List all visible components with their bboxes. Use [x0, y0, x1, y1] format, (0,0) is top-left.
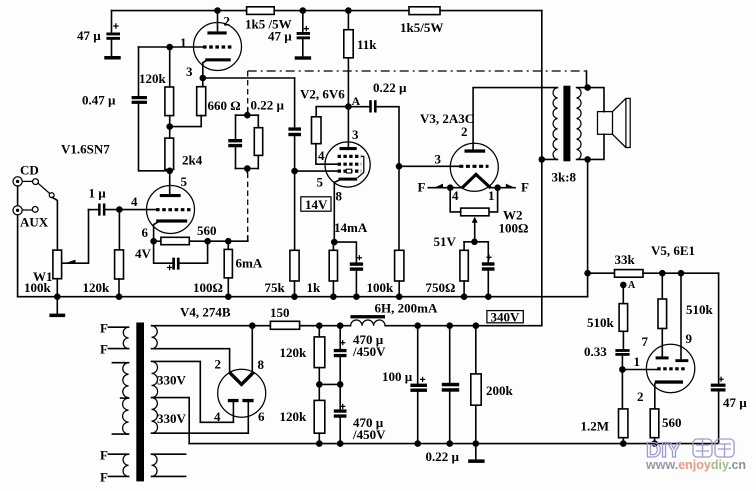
- wire V5 plate lead: [680, 273, 682, 359]
- junction grid/120k grid resistor: [116, 206, 123, 213]
- V5 cathode lead pin 2: [654, 384, 656, 409]
- svg-text:120k: 120k: [83, 280, 111, 295]
- svg-text:150: 150: [270, 305, 290, 320]
- V1b cathode lead pin 6: [154, 223, 157, 242]
- svg-text:47 µ: 47 µ: [268, 28, 292, 43]
- junction 100ohm ground: [225, 293, 232, 300]
- potentiometer W1 100k body: [53, 250, 62, 279]
- NFB bottom node: [244, 165, 251, 172]
- mains primary winding left: [112, 363, 128, 434]
- svg-text:0.22 µ: 0.22 µ: [426, 449, 460, 464]
- capacitor 47u second filter (polarized): [297, 11, 310, 57]
- dashed NFB drop wire: [247, 71, 249, 109]
- ground symbol below W1: [49, 297, 65, 317]
- svg-text:F: F: [100, 448, 108, 463]
- svg-text:www.enjoydiy.cn: www.enjoydiy.cn: [645, 458, 746, 472]
- V3 plate bar: [465, 149, 486, 152]
- svg-text:330V: 330V: [157, 411, 187, 426]
- wire to V3 grid: [399, 165, 459, 167]
- junction rail 47u second: [300, 7, 307, 14]
- V1b grid (dashed): [156, 208, 191, 211]
- junction midpoint 120k: [316, 381, 323, 388]
- wire NFB corner to OPT secondary: [586, 71, 588, 88]
- W1 wiper arrow: [63, 260, 76, 264]
- wire OPT primary bottom to B+ riser: [542, 158, 558, 160]
- junction secondary bottom: [584, 156, 591, 163]
- wire grid node down to 75k: [294, 171, 296, 250]
- wire switch to volume pot W1: [52, 197, 57, 250]
- svg-text:6mA: 6mA: [236, 255, 263, 270]
- junction 120k ground: [116, 293, 123, 300]
- junction secondary top: [584, 84, 591, 91]
- junction 560/bypass: [204, 238, 211, 245]
- speaker cone: [613, 98, 631, 147]
- resistor 75k grid leak V2: [290, 250, 299, 296]
- svg-text:V1.6SN7: V1.6SN7: [61, 142, 110, 157]
- svg-text:3: 3: [435, 152, 442, 167]
- svg-text:100k: 100k: [24, 280, 52, 295]
- V2 cathode lead pin 8: [334, 180, 338, 242]
- svg-text:F: F: [100, 470, 108, 485]
- dashed NFB wire down to V1b cathode: [246, 169, 248, 242]
- V2 beam plate to cathode bracket: [357, 156, 363, 177]
- capacitor cathode bypass V1b (polarized): [154, 241, 208, 270]
- V2 grid marker open square: [346, 169, 351, 173]
- svg-text:1.2M: 1.2M: [581, 418, 610, 433]
- junction rectifier output: [249, 322, 256, 329]
- resistor 33k: [588, 270, 719, 278]
- resistor 120k grid V1b: [115, 210, 124, 297]
- HV secondary winding right: [152, 361, 249, 443]
- svg-text:560: 560: [197, 223, 217, 238]
- watermark DIY logo: [646, 439, 734, 462]
- capacitor V3 cathode bypass (polarized): [482, 242, 495, 297]
- svg-text:6H, 200mA: 6H, 200mA: [375, 300, 438, 315]
- svg-text:0.22 µ: 0.22 µ: [251, 97, 285, 112]
- heater winding top left: [109, 327, 129, 348]
- output transformer core: [563, 86, 570, 162]
- junction 120k filter 1: [316, 322, 323, 329]
- junction primary bottom B+: [539, 156, 546, 163]
- V1b plate lead: [169, 171, 171, 194]
- svg-text:4: 4: [452, 188, 459, 203]
- svg-text:560: 560: [662, 415, 682, 430]
- tube V3 2A3 envelope: [450, 143, 498, 191]
- resistor 150: [252, 321, 350, 329]
- wire V1a cathode signal to V2 grid network: [294, 78, 296, 127]
- junction 1k ground: [330, 293, 337, 300]
- tube V2 6V6 envelope: [325, 142, 370, 187]
- wire W1 wiper to 1u cap: [63, 210, 89, 264]
- svg-text:33k: 33k: [615, 252, 636, 267]
- junction bypass ground: [353, 293, 360, 300]
- output transformer secondary winding: [577, 88, 581, 160]
- V5 grid (dashed): [657, 367, 686, 370]
- svg-text:11k: 11k: [357, 37, 377, 52]
- V1a grid (dashed): [203, 45, 233, 48]
- V1a cathode bar: [205, 58, 230, 61]
- NFB parallel RC frame top: [236, 114, 259, 116]
- junction 560/6mA: [225, 238, 232, 245]
- junction 470u filter 1: [337, 322, 344, 329]
- svg-text:8: 8: [258, 357, 265, 372]
- wire PSU ground bus: [189, 443, 718, 445]
- junction 750 ground: [461, 293, 468, 300]
- V4 plate bar left: [228, 399, 239, 402]
- svg-text:2: 2: [215, 356, 222, 371]
- node A junction (V2 plate): [345, 103, 352, 110]
- svg-text:9: 9: [686, 331, 693, 346]
- junction 1.2M bottom: [620, 440, 627, 447]
- node A tap dot: [620, 282, 627, 289]
- svg-text:120k: 120k: [139, 71, 167, 86]
- resistor 120k (V1a): [165, 47, 174, 127]
- svg-text:2k4: 2k4: [182, 152, 203, 167]
- svg-text:2: 2: [461, 124, 468, 139]
- rectifier 5V winding right top: [152, 326, 253, 373]
- capacitor 470u/450V second: [334, 384, 347, 443]
- W2 wiper arrow: [472, 217, 478, 242]
- svg-text:100Ω: 100Ω: [499, 220, 529, 235]
- svg-text:1 µ: 1 µ: [89, 185, 107, 200]
- svg-text:750Ω: 750Ω: [426, 280, 456, 295]
- resistor 100k grid leak V3: [395, 166, 404, 296]
- resistor 11k: [344, 11, 353, 107]
- AUX input jack: [13, 206, 38, 215]
- resistor 510k from node A: [619, 285, 628, 349]
- tube V1a 6SN7 upper triode envelope: [194, 23, 242, 71]
- svg-text:2: 2: [224, 14, 231, 29]
- resistor 120k filter 2: [314, 384, 325, 443]
- svg-text:F: F: [100, 342, 108, 357]
- svg-text:47 µ: 47 µ: [723, 395, 747, 410]
- svg-text:F: F: [100, 320, 108, 335]
- tube V1b 6SN7 lower triode envelope: [147, 186, 195, 234]
- svg-text:AUX: AUX: [20, 214, 49, 229]
- svg-text:0.22 µ: 0.22 µ: [373, 80, 407, 95]
- svg-text:3: 3: [352, 127, 359, 142]
- junction bypass V3 ground: [485, 293, 492, 300]
- resistor 100 ohm cathode (6mA): [224, 241, 232, 297]
- svg-text:660 Ω: 660 Ω: [208, 98, 241, 113]
- svg-text:120k: 120k: [280, 345, 308, 360]
- junction ground bus to OPT secondary riser: [584, 270, 591, 277]
- junction rail 11k: [345, 7, 352, 14]
- junction 120k2 bottom: [316, 440, 323, 447]
- junction V5 grid node: [619, 366, 626, 373]
- resistor 660 ohm: [170, 78, 206, 127]
- svg-text:47 µ: 47 µ: [77, 28, 101, 43]
- resistor 2k4: [165, 127, 174, 171]
- resistor 750 ohm cathode V3: [460, 242, 468, 297]
- resistor 1k cathode V2: [329, 242, 337, 297]
- junction 560 bottom: [651, 440, 658, 447]
- svg-text:100 µ: 100 µ: [382, 369, 413, 384]
- svg-text:14V: 14V: [305, 197, 328, 212]
- V3 filament: [462, 174, 491, 188]
- wire secondary bottom down to ground bus corner: [587, 159, 589, 296]
- svg-text:2: 2: [637, 389, 644, 404]
- junction 510k screen: [659, 270, 666, 277]
- svg-text:100k: 100k: [367, 280, 395, 295]
- resistor 120k filter 1: [314, 326, 325, 385]
- ground symbol PSU: [468, 444, 484, 463]
- junction plate V1b node: [166, 168, 173, 175]
- junction W2 wiper node: [471, 239, 478, 246]
- capacitor 47u cathode V5 (polarized): [711, 273, 726, 443]
- hum pot W2 100 ohm: [450, 188, 497, 216]
- junction 100u bottom: [414, 440, 421, 447]
- capacitor 0.22u coupling to V2: [288, 127, 301, 171]
- svg-text:1k: 1k: [307, 280, 322, 295]
- svg-text:330V: 330V: [157, 372, 187, 387]
- junction 100k ground: [396, 293, 403, 300]
- svg-text:0.47 µ: 0.47 µ: [82, 92, 116, 107]
- power transformer core: [136, 323, 144, 482]
- svg-text:510k: 510k: [686, 302, 714, 317]
- svg-text:75k: 75k: [265, 280, 286, 295]
- svg-text:V4, 274B: V4, 274B: [180, 305, 231, 320]
- svg-text:3: 3: [186, 64, 193, 79]
- capacitor 1u coupling: [89, 204, 157, 216]
- svg-text:/450V: /450V: [352, 427, 386, 442]
- svg-text:F: F: [418, 180, 426, 195]
- V1b cathode bar: [156, 219, 187, 222]
- tube V4 274B envelope: [218, 369, 266, 417]
- resistor 560 cathode V1b: [154, 237, 248, 244]
- junction 200k top: [473, 322, 480, 329]
- ground symbol for second 47u: [295, 56, 311, 59]
- capacitor 470u/450V first: [334, 326, 347, 385]
- capacitor 0.33: [615, 349, 629, 369]
- svg-text:4: 4: [318, 148, 325, 163]
- dash-dot NFB line from other channel: [248, 70, 587, 72]
- wire main ground bus: [18, 296, 588, 298]
- V2 plate lead: [347, 107, 349, 147]
- svg-text:340V: 340V: [491, 309, 521, 324]
- resistor 510k screen V5: [658, 273, 667, 356]
- capacitor 0.47u: [132, 47, 170, 171]
- svg-text:7: 7: [642, 334, 649, 349]
- svg-text:/450V: /450V: [352, 344, 386, 359]
- wire wiper node frame: [464, 241, 488, 243]
- V1a plate lead: [217, 11, 219, 32]
- svg-text:14mA: 14mA: [334, 220, 368, 235]
- svg-text:1: 1: [488, 188, 495, 203]
- junction on rail pin2 V1: [214, 7, 221, 14]
- tube V5 6E1 envelope: [646, 344, 694, 392]
- resistor 1k5/5W second: [409, 7, 440, 15]
- svg-text:F: F: [521, 180, 529, 195]
- resistor 560 cathode V5: [650, 409, 659, 444]
- junction V2 grid node: [291, 168, 298, 175]
- resistor 1k5/5W first: [247, 7, 275, 15]
- V4 plate bar right: [242, 399, 253, 402]
- junction 75k ground: [291, 293, 298, 300]
- junction V2 cathode network: [331, 239, 338, 246]
- capacitor 0.22u PSU: [442, 326, 459, 444]
- wire B+ riser right side down to PSU rail: [541, 11, 543, 326]
- junction filament left: [447, 184, 454, 191]
- NFB network top node: [244, 109, 251, 119]
- wire B+ top rail: [112, 10, 542, 12]
- boxed label 14V: [301, 197, 331, 212]
- junction 0.22u top: [446, 322, 453, 329]
- svg-text:5: 5: [317, 174, 324, 189]
- output transformer primary winding: [553, 88, 557, 160]
- junction 470u2 bottom: [337, 440, 344, 447]
- wire secondary bottom to speaker return: [577, 134, 604, 159]
- V1b plate bar: [160, 194, 181, 197]
- V2 plate bar: [340, 147, 357, 150]
- svg-text:8: 8: [336, 189, 343, 204]
- CD input jack: [13, 177, 38, 186]
- capacitor 0.22u coupling to V3: [348, 100, 399, 166]
- junction plate feed V5: [678, 270, 685, 277]
- resistor 200k bleeder: [471, 326, 481, 444]
- junction 200k bottom: [473, 440, 480, 447]
- svg-text:4: 4: [214, 409, 221, 424]
- svg-text:CD: CD: [20, 162, 39, 177]
- V1a cathode lead pin 3: [203, 61, 206, 78]
- capacitor 100u (polarized): [410, 326, 427, 444]
- choke 6H 200mA: [350, 315, 541, 326]
- V1a plate bar: [207, 31, 226, 34]
- junction W1 ground: [54, 293, 61, 300]
- ground symbol for 47u filter: [104, 56, 120, 60]
- svg-text:6: 6: [142, 225, 149, 240]
- svg-text:A: A: [628, 280, 636, 291]
- wire secondary top to speaker: [577, 88, 604, 112]
- junction grid/120k: [166, 44, 173, 51]
- V2 cathode bar: [339, 178, 358, 181]
- svg-text:100Ω: 100Ω: [193, 280, 223, 295]
- capacitor 0.22u NFB: [228, 115, 242, 168]
- wire to V2 grid: [295, 170, 338, 172]
- wire jack sleeves to ground bus: [17, 186, 19, 297]
- heater winding bottom right: [152, 454, 186, 476]
- wire filter midpoint: [319, 383, 340, 385]
- heater winding bottom left: [109, 454, 129, 476]
- svg-text:51V: 51V: [434, 234, 457, 249]
- svg-text:1: 1: [634, 354, 641, 369]
- svg-text:120k: 120k: [280, 409, 308, 424]
- junction V1b cathode: [150, 238, 157, 245]
- svg-text:4V: 4V: [135, 246, 152, 261]
- speaker driver box: [598, 112, 613, 135]
- V2 screen grid row (dashed): [338, 163, 362, 166]
- junction 100u top: [414, 322, 421, 329]
- filament wire right with arrow: [491, 184, 515, 188]
- V2 beam plate row (dashed): [338, 155, 362, 158]
- capacitor V2 cathode bypass (polarized): [334, 242, 363, 297]
- V3 plate lead to OPT: [473, 88, 557, 150]
- junction midpoint 470u: [337, 381, 344, 388]
- selector switch lever: [38, 183, 54, 197]
- svg-text:6: 6: [258, 409, 265, 424]
- svg-text:200k: 200k: [486, 383, 514, 398]
- boxed label 340V: [487, 309, 523, 324]
- filament wire left with arrow: [428, 184, 462, 188]
- V4 filament: [230, 372, 254, 384]
- junction filament right: [494, 184, 501, 191]
- svg-text:3k:8: 3k:8: [552, 169, 577, 184]
- svg-text:0.33: 0.33: [584, 344, 607, 359]
- screen resistor V2: [312, 107, 349, 165]
- W1 bottom lead: [56, 279, 58, 297]
- V5 target bar left: [656, 356, 669, 359]
- junction V3 grid node: [396, 163, 403, 170]
- svg-text:V2, 6V6: V2, 6V6: [300, 87, 345, 102]
- NFB frame bottom: [236, 168, 259, 170]
- V4 filament lead pin 8 to output node: [251, 326, 253, 373]
- V3 grid (dashed): [459, 165, 488, 168]
- svg-text:1k5/5W: 1k5/5W: [400, 20, 443, 35]
- svg-text:4: 4: [131, 194, 138, 209]
- wire V5 grid: [622, 369, 657, 371]
- V2 control grid row (dashed): [338, 170, 362, 173]
- resistor NFB: [254, 115, 262, 168]
- V5 cathode bar: [655, 380, 683, 383]
- svg-text:V5, 6E1: V5, 6E1: [651, 243, 695, 258]
- svg-text:5: 5: [181, 174, 188, 189]
- resistor 1.2M: [619, 370, 628, 444]
- junction cathode node: [200, 75, 207, 82]
- svg-text:510k: 510k: [587, 315, 615, 330]
- capacitor 47u first filter (polarized): [106, 11, 120, 56]
- V5 plate bar right: [675, 359, 688, 362]
- junction 0.22u bottom: [446, 440, 453, 447]
- wire V1a grid to 120k node: [139, 46, 204, 48]
- junction 120k/2k4/660: [166, 123, 173, 130]
- wire V1a cathode to coupling cap: [203, 77, 295, 79]
